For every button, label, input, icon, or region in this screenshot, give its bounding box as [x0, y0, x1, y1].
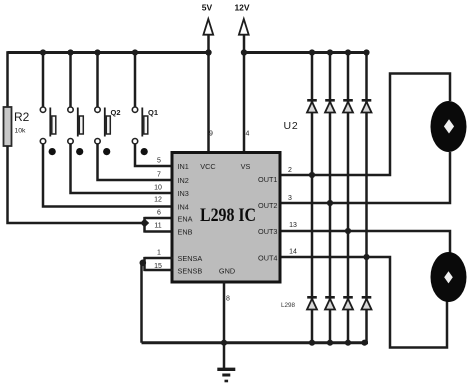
node rail junction S1 [40, 49, 46, 55]
svg-text:OUT4: OUT4 [258, 253, 277, 262]
switch Q2 [95, 107, 111, 155]
switch S2 [68, 107, 84, 155]
node top rail D2 [327, 49, 333, 55]
node OUT1/D1 junction [309, 172, 315, 178]
wire switch4 to IN1 [135, 144, 173, 167]
svg-text:12V: 12V [234, 3, 249, 13]
svg-text:VCC: VCC [200, 162, 215, 171]
svg-text:ENB: ENB [178, 227, 193, 236]
diode D2 [325, 100, 335, 112]
power 12V supply arrow [239, 19, 249, 153]
node rail junction S4 [132, 49, 138, 55]
wire top-right rail [244, 51, 368, 54]
svg-text:SENSA: SENSA [178, 254, 203, 263]
node OUT4/D4 junction [363, 254, 369, 260]
wire switch3 drop from rail [96, 53, 99, 108]
node bottom rail D5 [309, 340, 315, 346]
svg-text:13: 13 [289, 222, 297, 229]
svg-text:6: 6 [157, 210, 161, 217]
wire switch1 to IN4 [43, 144, 173, 207]
motor M1 [431, 101, 467, 152]
wire diode column 1 [311, 53, 314, 343]
node rail junction S2 [67, 49, 73, 55]
svg-text:ENA: ENA [178, 214, 193, 223]
wire SENSA/SENSB bracket [145, 257, 174, 271]
svg-text:Q1: Q1 [148, 108, 158, 117]
diode D7 [343, 297, 353, 309]
wire OUT3 to motor M2 top [279, 231, 450, 255]
wire ENA/ENB bracket [145, 217, 174, 233]
wire top-left rail [8, 51, 209, 54]
svg-text:L298: L298 [281, 302, 296, 309]
svg-text:10k: 10k [15, 128, 27, 135]
svg-text:R2: R2 [14, 110, 30, 124]
svg-text:5V: 5V [202, 3, 213, 13]
resistor R2 [4, 107, 12, 146]
svg-text:IN4: IN4 [178, 202, 189, 211]
motor M2 [431, 252, 467, 302]
node bottom rail D7 [345, 340, 351, 346]
svg-text:OUT2: OUT2 [258, 201, 277, 210]
svg-text:5: 5 [157, 158, 161, 165]
wire OUT2 to motor M1 bottom [279, 152, 450, 203]
node OUT3/D3 junction [345, 228, 351, 234]
svg-text:11: 11 [154, 223, 161, 230]
svg-text:2: 2 [288, 167, 292, 174]
svg-text:VS: VS [241, 162, 251, 171]
diode D1 [307, 100, 317, 112]
diode D4 [362, 100, 372, 112]
node 12V rail junction [241, 49, 247, 55]
switch S1 [40, 107, 56, 155]
svg-text:OUT3: OUT3 [258, 227, 277, 236]
node 5V rail junction [205, 49, 211, 55]
svg-text:GND: GND [219, 266, 235, 275]
switch Q1 [132, 107, 148, 155]
diode D6 [325, 297, 335, 309]
diode D3 [343, 100, 353, 112]
node OUT2/D2 junction [327, 200, 333, 206]
svg-text:IN1: IN1 [178, 162, 189, 171]
IC U2 (L298) [172, 153, 280, 283]
svg-text:8: 8 [226, 296, 230, 303]
wire switch2 drop from rail [69, 53, 72, 108]
wire left vertical below R2 and ENA/ENB feed [8, 146, 142, 223]
svg-text:L298 IC: L298 IC [200, 205, 256, 226]
ground symbol [217, 369, 235, 381]
wire switch4 drop from rail [134, 53, 137, 108]
svg-text:3: 3 [288, 195, 292, 202]
wire left edge vertical (rail to R2) [6, 51, 9, 108]
node SENS junction [140, 260, 147, 267]
wire switch1 drop from rail [42, 53, 45, 108]
node bottom rail D8 [361, 340, 367, 346]
node GND rail junction [221, 340, 227, 346]
svg-text:U2: U2 [284, 120, 299, 132]
svg-text:Q2: Q2 [111, 108, 121, 117]
node rail junction S3 [94, 49, 100, 55]
svg-text:OUT1: OUT1 [258, 175, 277, 184]
diode D5 [307, 297, 317, 309]
svg-text:SENSB: SENSB [178, 266, 203, 275]
wire OUT4 to motor M2 bottom [279, 257, 447, 348]
wire SENS to ground rail [140, 263, 143, 343]
node top rail D3 [345, 49, 351, 55]
wire bottom ground rail [142, 341, 369, 344]
node bottom rail D6 [327, 340, 333, 346]
node top rail D4 [363, 49, 369, 55]
wire OUT1 to motor M1 top [279, 74, 450, 176]
svg-text:12: 12 [154, 197, 162, 204]
wire switch3 to IN2 [98, 144, 174, 181]
wire diode column 3 [347, 53, 350, 343]
node top rail D1 [309, 49, 315, 55]
svg-text:14: 14 [289, 249, 297, 256]
svg-text:4: 4 [246, 131, 250, 138]
node ENA/ENB junction (diamond) [140, 219, 149, 228]
svg-text:10: 10 [154, 185, 162, 192]
svg-text:IN3: IN3 [178, 189, 189, 198]
svg-text:IN2: IN2 [178, 176, 189, 185]
wire switch2 to IN3 [71, 144, 174, 194]
svg-text:7: 7 [157, 172, 161, 179]
wire diode column 2 [329, 53, 332, 343]
svg-text:9: 9 [209, 131, 213, 138]
svg-text:1: 1 [157, 250, 161, 257]
diode D8 [362, 297, 372, 309]
wire diode column 4 [365, 53, 368, 343]
wire GND pin 8 stub [223, 281, 226, 368]
power 5V supply arrow [203, 19, 213, 153]
